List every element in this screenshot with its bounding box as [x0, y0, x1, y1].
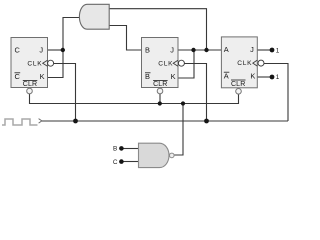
node junction dot clock C	[73, 119, 78, 124]
wire CLK FF C	[54, 64, 76, 122]
node junction dot CLR B	[158, 101, 162, 105]
svg-text:1: 1	[276, 47, 280, 54]
clock arrow	[39, 119, 42, 124]
wire C input NAND	[123, 161, 139, 163]
svg-text:C: C	[15, 72, 21, 81]
FF A clock triangle	[253, 60, 257, 66]
node junction dot K_B branch	[191, 48, 195, 52]
svg-text:CLR: CLR	[231, 81, 245, 88]
wire K_A tie to 1	[257, 76, 272, 78]
node input dot C	[119, 159, 124, 164]
wire AND top input from node A	[109, 9, 207, 50]
wire NAND output	[174, 104, 183, 156]
svg-text:J: J	[39, 45, 43, 54]
svg-text:B: B	[113, 146, 117, 153]
svg-text:B: B	[145, 72, 150, 81]
node junction dot clock B	[204, 119, 209, 124]
svg-text:J: J	[170, 45, 174, 54]
wire CLK FF B	[184, 64, 206, 122]
flip-flop FF C box	[11, 38, 48, 88]
wire K_B branch	[178, 50, 194, 78]
wire J stub FF C	[48, 49, 63, 51]
node junction dot AND tap	[204, 48, 208, 52]
svg-text:J: J	[250, 45, 254, 54]
svg-text:CLK: CLK	[27, 60, 42, 67]
svg-text:CLK: CLK	[237, 60, 252, 67]
wire AND bottom input from node B	[109, 26, 142, 51]
node tie dot J_A=1	[270, 48, 275, 53]
svg-text:A: A	[224, 45, 229, 54]
wire CLK FF A	[264, 64, 288, 122]
wire CLR drop FF B	[159, 94, 161, 104]
wire CLR line	[30, 94, 239, 104]
flip-flop FF B box	[142, 38, 179, 88]
FF B clock bubble	[178, 60, 184, 66]
FF A CLR bubble	[236, 89, 242, 95]
FF B CLR bubble	[157, 88, 163, 94]
wire B input NAND	[123, 148, 139, 150]
FF C clock triangle	[43, 60, 48, 66]
wire node A row	[179, 49, 222, 51]
clock waveform symbol	[2, 119, 38, 125]
svg-text:CLR: CLR	[153, 81, 167, 88]
node tie dot K_A=1	[270, 75, 275, 80]
svg-text:B: B	[145, 45, 150, 54]
FF A clock bubble	[258, 60, 264, 66]
svg-text:CLK: CLK	[158, 60, 173, 67]
node input dot B	[119, 146, 124, 151]
svg-text:K: K	[250, 72, 255, 81]
NAND output bubble	[170, 153, 175, 158]
AND gate U1 (mirrored, output left)	[79, 4, 109, 29]
FF C clock bubble	[48, 60, 54, 66]
svg-text:A: A	[224, 72, 229, 81]
svg-text:C: C	[113, 159, 118, 166]
svg-text:K: K	[40, 72, 45, 81]
FF B clock triangle	[173, 60, 178, 66]
clock line	[42, 120, 288, 122]
svg-text:K: K	[171, 72, 176, 81]
svg-text:CLR: CLR	[23, 81, 37, 88]
NAND gate U2	[139, 143, 170, 167]
svg-text:1: 1	[276, 74, 280, 81]
wire AND output to J/K of FF C	[48, 18, 81, 78]
node junction dot CLR NAND	[181, 101, 185, 105]
svg-text:C: C	[15, 45, 21, 54]
FF C CLR bubble	[27, 88, 33, 94]
wire J_A tie to 1	[257, 49, 272, 51]
node junction dot J_C	[61, 48, 65, 52]
flip-flop FF A box	[221, 37, 257, 88]
